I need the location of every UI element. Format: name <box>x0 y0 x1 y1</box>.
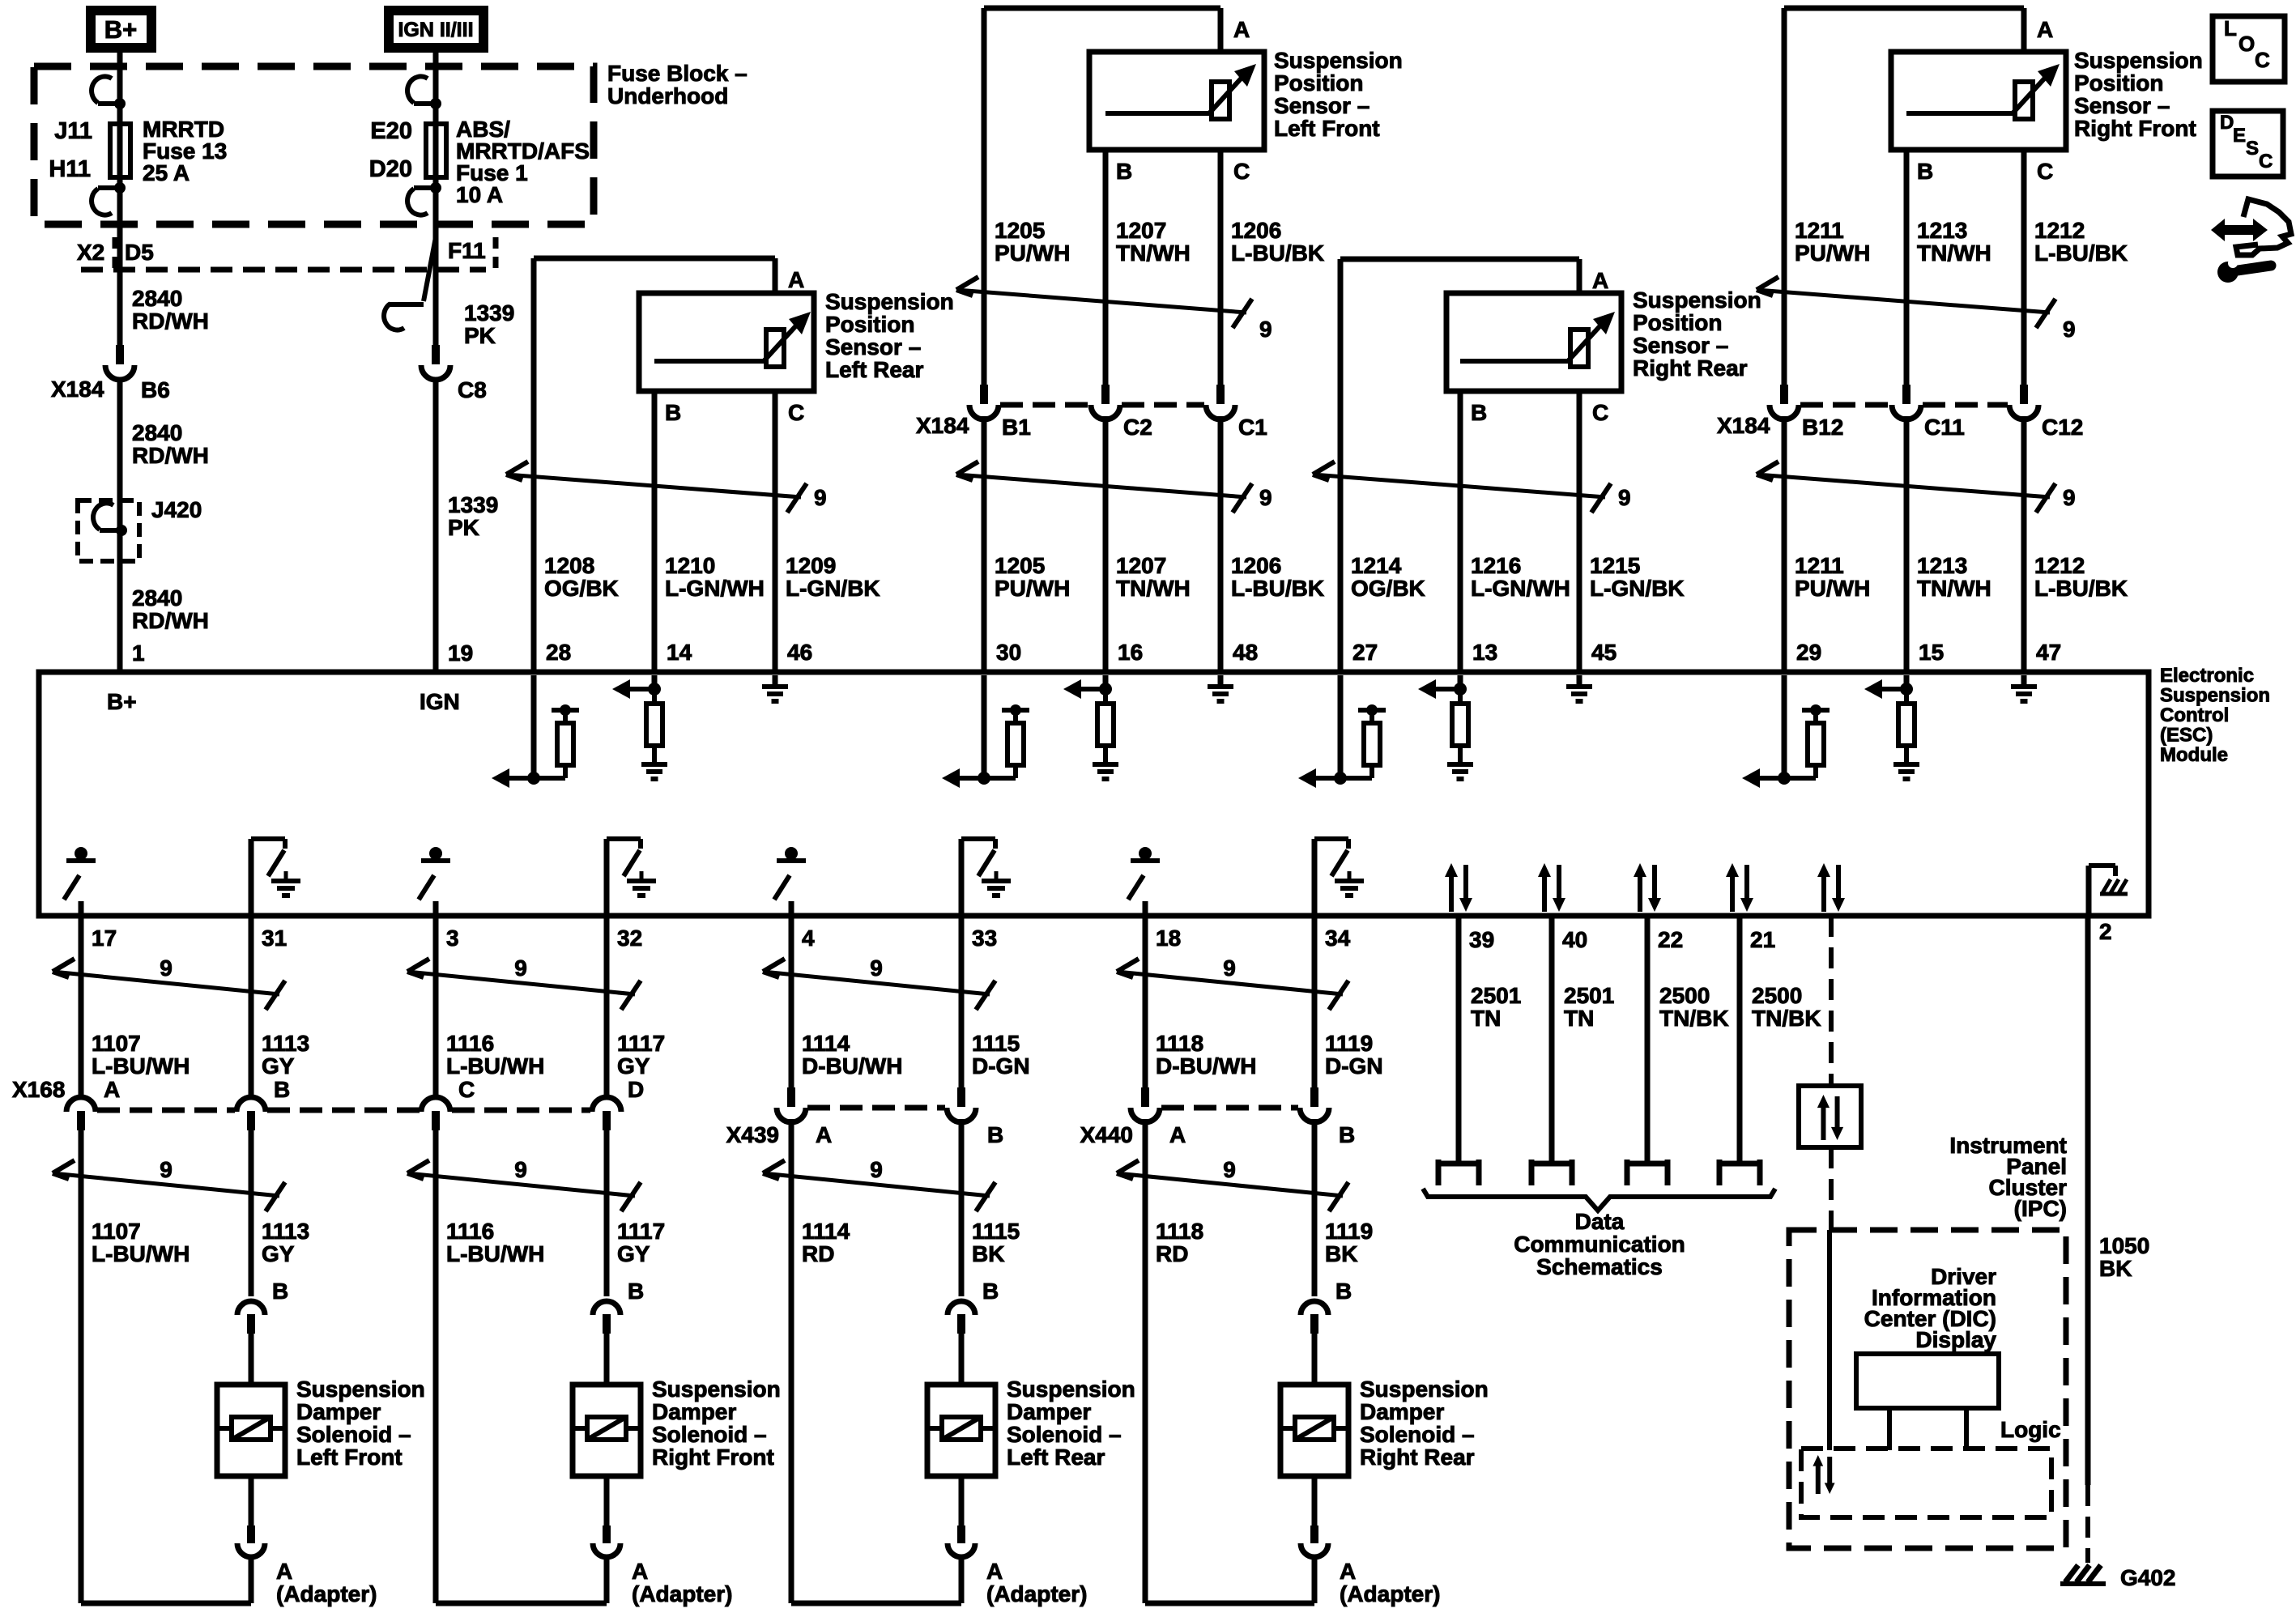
svg-text:B1: B1 <box>1002 415 1031 440</box>
svg-text:Position: Position <box>1274 70 1363 96</box>
svg-text:B: B <box>274 1077 290 1102</box>
svg-text:9: 9 <box>1223 1157 1236 1182</box>
svg-text:Suspension: Suspension <box>1274 48 1403 73</box>
svg-text:10 A: 10 A <box>456 182 503 207</box>
svg-text:2840: 2840 <box>132 286 182 311</box>
svg-text:2840: 2840 <box>132 420 182 445</box>
svg-text:B6: B6 <box>141 377 170 402</box>
svg-text:B+: B+ <box>104 15 138 44</box>
svg-text:1212: 1212 <box>2034 553 2085 578</box>
svg-text:C: C <box>1233 159 1250 184</box>
svg-text:Solenoid –: Solenoid – <box>1007 1422 1122 1447</box>
svg-text:X184: X184 <box>51 377 104 402</box>
svg-text:X439: X439 <box>726 1122 779 1147</box>
svg-text:Left Rear: Left Rear <box>825 357 923 382</box>
svg-text:RD/WH: RD/WH <box>132 309 209 334</box>
svg-text:L-GN/WH: L-GN/WH <box>1471 576 1570 601</box>
svg-text:1208: 1208 <box>544 553 594 578</box>
svg-text:(Adapter): (Adapter) <box>632 1581 732 1606</box>
svg-text:31: 31 <box>262 926 287 951</box>
svg-text:B: B <box>1339 1122 1355 1147</box>
svg-text:3: 3 <box>446 926 459 951</box>
svg-text:1119: 1119 <box>1325 1031 1373 1056</box>
svg-text:OG/BK: OG/BK <box>544 576 619 601</box>
svg-text:TN/BK: TN/BK <box>1659 1006 1729 1031</box>
svg-text:1207: 1207 <box>1116 553 1166 578</box>
svg-text:TN: TN <box>1471 1006 1501 1031</box>
svg-text:1118: 1118 <box>1156 1031 1203 1056</box>
svg-text:Position: Position <box>825 312 914 337</box>
svg-text:L-BU/WH: L-BU/WH <box>92 1053 190 1079</box>
svg-text:C8: C8 <box>458 377 487 402</box>
svg-text:2500: 2500 <box>1752 983 1802 1008</box>
svg-text:E20: E20 <box>370 118 412 144</box>
svg-text:Logic: Logic <box>2000 1417 2061 1442</box>
svg-text:Solenoid –: Solenoid – <box>1360 1422 1475 1447</box>
svg-text:1119: 1119 <box>1325 1219 1373 1244</box>
svg-text:9: 9 <box>514 1157 527 1182</box>
svg-text:B: B <box>1335 1279 1352 1304</box>
svg-text:9: 9 <box>1223 955 1236 981</box>
svg-text:Suspension: Suspension <box>652 1377 781 1402</box>
svg-text:Display: Display <box>1915 1327 1996 1352</box>
svg-text:9: 9 <box>160 1157 173 1182</box>
svg-text:2: 2 <box>2099 919 2112 944</box>
svg-text:9: 9 <box>2063 317 2076 342</box>
svg-text:Right Rear: Right Rear <box>1633 355 1748 381</box>
svg-text:B: B <box>1116 159 1132 184</box>
svg-text:17: 17 <box>92 926 117 951</box>
svg-text:2840: 2840 <box>132 585 182 611</box>
svg-text:H11: H11 <box>49 156 91 182</box>
svg-text:RD/WH: RD/WH <box>132 443 209 468</box>
svg-text:BK: BK <box>1325 1241 1357 1266</box>
svg-text:A: A <box>986 1559 1003 1584</box>
svg-text:Suspension: Suspension <box>2074 48 2203 73</box>
svg-text:F11: F11 <box>448 238 486 263</box>
svg-text:C11: C11 <box>1924 415 1965 440</box>
svg-text:Sensor –: Sensor – <box>2074 93 2170 118</box>
svg-text:4: 4 <box>802 926 815 951</box>
svg-text:1116: 1116 <box>446 1031 494 1056</box>
svg-text:G402: G402 <box>2120 1565 2176 1590</box>
svg-text:B: B <box>628 1279 644 1304</box>
svg-text:1211: 1211 <box>1795 218 1844 243</box>
svg-text:D5: D5 <box>125 240 154 265</box>
svg-text:Left Front: Left Front <box>1274 116 1380 141</box>
svg-text:21: 21 <box>1750 927 1775 952</box>
svg-text:J420: J420 <box>151 497 202 522</box>
svg-text:39: 39 <box>1469 927 1494 952</box>
svg-text:46: 46 <box>787 640 812 665</box>
svg-text:L-BU/BK: L-BU/BK <box>2034 576 2128 601</box>
svg-text:L-GN/BK: L-GN/BK <box>1590 576 1685 601</box>
svg-text:GY: GY <box>617 1241 650 1266</box>
svg-text:29: 29 <box>1796 640 1821 665</box>
svg-text:1216: 1216 <box>1471 553 1521 578</box>
svg-text:Right Rear: Right Rear <box>1360 1445 1475 1470</box>
svg-text:9: 9 <box>1259 317 1272 342</box>
svg-text:D: D <box>2220 112 2234 134</box>
svg-text:B: B <box>665 400 681 425</box>
svg-text:(Adapter): (Adapter) <box>986 1581 1087 1606</box>
svg-text:B: B <box>987 1122 1003 1147</box>
svg-text:9: 9 <box>870 1157 883 1182</box>
svg-text:Left Rear: Left Rear <box>1007 1445 1105 1470</box>
svg-text:Fuse Block –: Fuse Block – <box>607 61 748 86</box>
svg-text:Damper: Damper <box>1007 1399 1091 1424</box>
svg-text:1213: 1213 <box>1917 218 1967 243</box>
svg-text:C: C <box>2259 151 2273 172</box>
svg-text:45: 45 <box>1591 640 1617 665</box>
svg-text:Suspension: Suspension <box>1633 287 1761 313</box>
svg-text:TN/WH: TN/WH <box>1116 576 1191 601</box>
svg-text:1115: 1115 <box>972 1031 1020 1056</box>
svg-text:14: 14 <box>667 640 692 665</box>
svg-text:X440: X440 <box>1080 1122 1133 1147</box>
svg-text:A: A <box>104 1077 120 1102</box>
svg-text:Control: Control <box>2160 704 2229 726</box>
svg-text:C1: C1 <box>1238 415 1267 440</box>
svg-text:B: B <box>982 1279 999 1304</box>
svg-text:1107: 1107 <box>92 1219 141 1244</box>
svg-text:Suspension: Suspension <box>1360 1377 1489 1402</box>
svg-text:9: 9 <box>1259 485 1272 510</box>
svg-text:Damper: Damper <box>652 1399 736 1424</box>
svg-text:Schematics: Schematics <box>1536 1254 1663 1279</box>
svg-text:(ESC): (ESC) <box>2160 725 2213 747</box>
svg-text:48: 48 <box>1233 640 1258 665</box>
svg-text:A: A <box>1592 268 1608 293</box>
svg-text:1050: 1050 <box>2099 1233 2149 1258</box>
svg-text:Suspension: Suspension <box>2160 685 2270 707</box>
svg-text:Suspension: Suspension <box>825 289 954 314</box>
svg-text:L-GN/WH: L-GN/WH <box>665 576 765 601</box>
svg-text:Right Front: Right Front <box>652 1445 774 1470</box>
svg-text:(IPC): (IPC) <box>2014 1196 2067 1221</box>
svg-text:22: 22 <box>1658 927 1683 952</box>
svg-text:9: 9 <box>2063 485 2076 510</box>
svg-text:Suspension: Suspension <box>296 1377 425 1402</box>
svg-text:1211: 1211 <box>1795 553 1844 578</box>
svg-text:A: A <box>2037 17 2053 42</box>
svg-text:9: 9 <box>514 955 527 981</box>
svg-text:C: C <box>458 1077 475 1102</box>
svg-text:1205: 1205 <box>995 553 1045 578</box>
svg-text:15: 15 <box>1919 640 1944 665</box>
svg-text:L-BU/BK: L-BU/BK <box>1231 576 1324 601</box>
svg-text:Position: Position <box>2074 70 2163 96</box>
svg-text:B12: B12 <box>1802 415 1843 440</box>
svg-text:1339: 1339 <box>448 492 498 517</box>
svg-text:O: O <box>2238 32 2255 56</box>
svg-text:1: 1 <box>132 640 145 666</box>
svg-text:D-GN: D-GN <box>1325 1053 1383 1079</box>
svg-text:1212: 1212 <box>2034 218 2085 243</box>
svg-text:Underhood: Underhood <box>607 83 728 109</box>
svg-text:TN/WH: TN/WH <box>1917 240 1991 266</box>
svg-text:1117: 1117 <box>617 1031 665 1056</box>
svg-text:1113: 1113 <box>262 1219 309 1244</box>
svg-text:C: C <box>1592 400 1608 425</box>
svg-text:GY: GY <box>262 1241 295 1266</box>
svg-text:RD: RD <box>1156 1241 1188 1266</box>
svg-text:Sensor –: Sensor – <box>1633 333 1728 358</box>
svg-text:Communication: Communication <box>1514 1232 1685 1257</box>
svg-text:L-BU/WH: L-BU/WH <box>446 1053 544 1079</box>
svg-text:1210: 1210 <box>665 553 715 578</box>
svg-text:E: E <box>2233 125 2246 147</box>
svg-text:2501: 2501 <box>1564 983 1614 1008</box>
svg-text:Damper: Damper <box>1360 1399 1444 1424</box>
svg-text:GY: GY <box>617 1053 650 1079</box>
svg-text:Module: Module <box>2160 744 2228 766</box>
svg-text:A: A <box>816 1122 832 1147</box>
svg-text:Solenoid –: Solenoid – <box>296 1422 411 1447</box>
svg-text:RD/WH: RD/WH <box>132 608 209 633</box>
svg-text:33: 33 <box>972 926 997 951</box>
svg-text:1205: 1205 <box>995 218 1045 243</box>
svg-text:BK: BK <box>972 1241 1004 1266</box>
svg-text:C: C <box>2037 159 2053 184</box>
svg-text:B+: B+ <box>107 689 137 714</box>
svg-text:19: 19 <box>448 640 473 666</box>
svg-text:IGN: IGN <box>420 689 460 714</box>
svg-text:TN/WH: TN/WH <box>1116 240 1191 266</box>
svg-text:2500: 2500 <box>1659 983 1710 1008</box>
svg-text:RD: RD <box>802 1241 834 1266</box>
svg-text:47: 47 <box>2036 640 2061 665</box>
svg-text:D-GN: D-GN <box>972 1053 1030 1079</box>
svg-text:L-BU/BK: L-BU/BK <box>2034 240 2128 266</box>
svg-text:OG/BK: OG/BK <box>1351 576 1425 601</box>
svg-text:X184: X184 <box>1717 413 1770 438</box>
svg-text:1107: 1107 <box>92 1031 141 1056</box>
svg-text:L: L <box>2224 16 2237 40</box>
svg-text:PU/WH: PU/WH <box>995 576 1070 601</box>
svg-text:PU/WH: PU/WH <box>1795 240 1870 266</box>
svg-text:A: A <box>1233 17 1250 42</box>
svg-text:B: B <box>1917 159 1933 184</box>
svg-text:L-GN/BK: L-GN/BK <box>786 576 880 601</box>
svg-text:TN/WH: TN/WH <box>1917 576 1991 601</box>
svg-text:1214: 1214 <box>1351 553 1402 578</box>
svg-text:9: 9 <box>1618 485 1631 510</box>
svg-text:PK: PK <box>448 515 479 540</box>
svg-text:1206: 1206 <box>1231 553 1281 578</box>
svg-text:C12: C12 <box>2042 415 2083 440</box>
svg-text:(Adapter): (Adapter) <box>276 1581 377 1606</box>
svg-text:S: S <box>2246 138 2259 160</box>
svg-text:1114: 1114 <box>802 1031 850 1056</box>
svg-text:9: 9 <box>160 955 173 981</box>
svg-text:BK: BK <box>2099 1256 2132 1281</box>
svg-text:X184: X184 <box>916 413 969 438</box>
svg-text:Sensor –: Sensor – <box>1274 93 1370 118</box>
svg-text:X2: X2 <box>77 240 104 265</box>
svg-text:30: 30 <box>996 640 1021 665</box>
svg-text:18: 18 <box>1156 926 1181 951</box>
svg-text:A: A <box>788 267 804 292</box>
svg-text:L-BU/BK: L-BU/BK <box>1231 240 1324 266</box>
svg-text:13: 13 <box>1472 640 1497 665</box>
svg-text:C2: C2 <box>1123 415 1152 440</box>
svg-text:D-BU/WH: D-BU/WH <box>802 1053 902 1079</box>
svg-text:1113: 1113 <box>262 1031 309 1056</box>
svg-text:TN: TN <box>1564 1006 1594 1031</box>
svg-text:A: A <box>1169 1122 1186 1147</box>
svg-text:L-BU/WH: L-BU/WH <box>446 1241 544 1266</box>
svg-text:C: C <box>788 400 804 425</box>
svg-text:9: 9 <box>814 485 827 510</box>
svg-text:27: 27 <box>1352 640 1378 665</box>
svg-text:PK: PK <box>464 323 496 348</box>
svg-text:PU/WH: PU/WH <box>995 240 1070 266</box>
svg-text:Suspension: Suspension <box>1007 1377 1135 1402</box>
svg-text:PU/WH: PU/WH <box>1795 576 1870 601</box>
svg-text:A: A <box>632 1559 648 1584</box>
svg-text:1206: 1206 <box>1231 218 1281 243</box>
svg-text:1116: 1116 <box>446 1219 494 1244</box>
svg-text:1209: 1209 <box>786 553 836 578</box>
svg-text:Electronic: Electronic <box>2160 665 2254 687</box>
svg-text:1215: 1215 <box>1590 553 1640 578</box>
svg-text:TN/BK: TN/BK <box>1752 1006 1821 1031</box>
svg-text:D-BU/WH: D-BU/WH <box>1156 1053 1256 1079</box>
svg-text:L-BU/WH: L-BU/WH <box>92 1241 190 1266</box>
svg-text:Position: Position <box>1633 310 1722 335</box>
svg-text:J11: J11 <box>54 118 92 144</box>
svg-text:D20: D20 <box>369 156 412 182</box>
svg-text:16: 16 <box>1118 640 1143 665</box>
svg-text:B: B <box>272 1279 288 1304</box>
svg-text:1118: 1118 <box>1156 1219 1203 1244</box>
svg-text:IGN II/III: IGN II/III <box>398 19 473 41</box>
svg-text:25 A: 25 A <box>143 160 190 185</box>
svg-text:A: A <box>1340 1559 1356 1584</box>
svg-text:Solenoid –: Solenoid – <box>652 1422 767 1447</box>
svg-text:Sensor –: Sensor – <box>825 334 921 360</box>
svg-text:A: A <box>276 1559 292 1584</box>
svg-text:(Adapter): (Adapter) <box>1340 1581 1440 1606</box>
svg-text:B: B <box>1471 400 1487 425</box>
svg-text:1114: 1114 <box>802 1219 850 1244</box>
svg-text:1115: 1115 <box>972 1219 1020 1244</box>
svg-text:Damper: Damper <box>296 1399 381 1424</box>
svg-text:1117: 1117 <box>617 1219 665 1244</box>
svg-text:34: 34 <box>1325 926 1351 951</box>
svg-text:28: 28 <box>546 640 571 665</box>
svg-text:2501: 2501 <box>1471 983 1521 1008</box>
svg-text:X168: X168 <box>12 1077 65 1102</box>
svg-text:9: 9 <box>870 955 883 981</box>
svg-text:GY: GY <box>262 1053 295 1079</box>
svg-text:40: 40 <box>1562 927 1587 952</box>
svg-text:Data: Data <box>1575 1209 1625 1234</box>
svg-text:32: 32 <box>617 926 642 951</box>
svg-text:Left Front: Left Front <box>296 1445 403 1470</box>
svg-text:Right Front: Right Front <box>2074 116 2196 141</box>
svg-text:D: D <box>628 1077 644 1102</box>
svg-text:C: C <box>2255 48 2270 72</box>
svg-text:1213: 1213 <box>1917 553 1967 578</box>
svg-text:1207: 1207 <box>1116 218 1166 243</box>
svg-text:1339: 1339 <box>464 300 514 326</box>
